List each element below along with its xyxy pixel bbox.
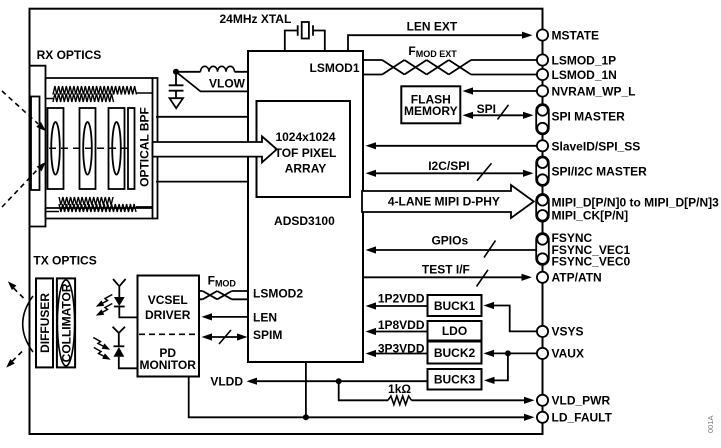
block LDO bbox=[428, 321, 482, 341]
RX optics lens mount bracket bbox=[30, 66, 46, 227]
crystal X1 24MHz leads bbox=[285, 31, 325, 52]
inductor VLOW bbox=[178, 71, 248, 73]
svg-text:TOF PIXEL: TOF PIXEL bbox=[275, 146, 337, 160]
pin VLD_PWR bbox=[537, 395, 548, 406]
hollow arrow 4-LANE MIPI D-PHY bbox=[362, 185, 534, 218]
twisted pair FMOD EXT crossings bbox=[382, 60, 471, 75]
optical axis dashed line bbox=[49, 147, 128, 149]
module boundary border bbox=[30, 9, 543, 434]
RX optics thread zigzag bottom row A bbox=[59, 197, 113, 205]
slash TEST I/F bus mark bbox=[477, 270, 489, 287]
wire I2C/SPI bbox=[366, 170, 534, 177]
pin VSYS bbox=[537, 326, 548, 337]
svg-text:OPTICAL BPF: OPTICAL BPF bbox=[137, 107, 151, 187]
svg-text:SPIM: SPIM bbox=[253, 328, 282, 342]
wire SPIM bbox=[202, 333, 248, 340]
lens element 2 bbox=[80, 108, 96, 189]
wire 3P3VDD bbox=[366, 350, 428, 357]
pin group SPI/I2C MASTER stadium bbox=[536, 157, 549, 186]
svg-text:RX OPTICS: RX OPTICS bbox=[37, 48, 102, 62]
svg-text:MIPI_CK[P/N]: MIPI_CK[P/N] bbox=[552, 209, 629, 223]
svg-text:SPI: SPI bbox=[477, 102, 496, 116]
pin VAUX bbox=[537, 348, 548, 359]
light arrow into D2 a bbox=[93, 338, 110, 350]
RX optics thread zigzag bottom row B bbox=[59, 204, 136, 212]
svg-text:FMOD: FMOD bbox=[208, 274, 237, 289]
svg-text:MEMORY: MEMORY bbox=[404, 104, 458, 118]
node VLDD junction dot bbox=[336, 378, 342, 384]
svg-text:LEN: LEN bbox=[253, 310, 277, 324]
svg-text:ADSD3100: ADSD3100 bbox=[274, 214, 335, 228]
block BUCK1 bbox=[428, 295, 482, 316]
svg-text:3P3VDD: 3P3VDD bbox=[378, 342, 425, 356]
wire PD monitor to LD_FAULT bbox=[189, 377, 535, 421]
pin SPI MASTER circle 1 bbox=[537, 105, 548, 116]
light arrow from D1 a bbox=[96, 295, 113, 307]
crystal X1 plates bbox=[298, 25, 313, 36]
svg-text:MONITOR: MONITOR bbox=[139, 358, 196, 372]
wire SPI bus bbox=[463, 112, 534, 119]
incoming light dashed arrow 2 bbox=[2, 162, 46, 207]
wire LEN EXT to MSTATE bbox=[348, 32, 533, 51]
wire NVRAM_WP_L bbox=[463, 87, 537, 94]
svg-text:1P2VDD: 1P2VDD bbox=[378, 291, 425, 305]
collimator lens ellipse bbox=[57, 280, 74, 366]
svg-text:BUCK2: BUCK2 bbox=[434, 346, 476, 360]
twisted pair FMOD rails bbox=[200, 291, 249, 299]
optical path hollow arrow bbox=[153, 136, 277, 162]
block COLLIMATOR bbox=[57, 278, 75, 367]
pin SPI MASTER circle 2 bbox=[537, 123, 548, 134]
svg-text:24MHz XTAL: 24MHz XTAL bbox=[220, 12, 292, 26]
svg-text:VLOW: VLOW bbox=[209, 77, 246, 91]
svg-text:001A: 001A bbox=[706, 415, 715, 433]
svg-text:ARRAY: ARRAY bbox=[285, 162, 327, 176]
emitted light dashed arrow down bbox=[6, 352, 22, 368]
wire ADSD3100 bottom to LD_FAULT line bbox=[305, 362, 307, 417]
lens element 3 bbox=[109, 108, 125, 189]
RX optics thread zigzag top row A bbox=[53, 86, 137, 95]
svg-text:MIPI_D[P/N]0 to MIPI_D[P/N]3: MIPI_D[P/N]0 to MIPI_D[P/N]3 bbox=[552, 196, 720, 210]
node LD_FAULT junction dot bbox=[303, 414, 309, 420]
block TOF pixel array bbox=[257, 101, 351, 197]
optical bandpass filter element bbox=[128, 108, 135, 189]
pin SPI/I2C MASTER circle 1 bbox=[537, 157, 548, 168]
svg-text:BUCK3: BUCK3 bbox=[434, 373, 476, 387]
svg-text:VAUX: VAUX bbox=[552, 347, 584, 361]
pin ATP_ATN bbox=[537, 272, 548, 283]
light arrow into D2 b bbox=[94, 348, 111, 360]
svg-text:VLDD: VLDD bbox=[210, 374, 243, 388]
svg-text:ATP/ATN: ATP/ATN bbox=[552, 271, 602, 285]
wire 1P8VDD bbox=[366, 328, 428, 335]
svg-text:LEN EXT: LEN EXT bbox=[407, 20, 458, 34]
svg-text:4-LANE MIPI D-PHY: 4-LANE MIPI D-PHY bbox=[388, 195, 500, 209]
wire VSYS to BUCK1 bbox=[484, 302, 537, 332]
svg-text:VCSEL: VCSEL bbox=[148, 293, 188, 307]
slash I2C/SPI bus mark bbox=[477, 163, 492, 181]
svg-text:1kΩ: 1kΩ bbox=[388, 382, 411, 396]
crystal X1 body bbox=[302, 22, 309, 39]
svg-text:NVRAM_WP_L: NVRAM_WP_L bbox=[552, 84, 636, 98]
svg-text:FMOD EXT: FMOD EXT bbox=[408, 44, 457, 59]
lens element 1 bbox=[48, 108, 64, 189]
photodiode D2 triangle bbox=[114, 347, 125, 357]
light duct top wire bbox=[156, 116, 249, 118]
wire LEN bbox=[202, 313, 249, 320]
pin MSTATE bbox=[537, 29, 548, 40]
wire GPIOs bbox=[366, 246, 537, 253]
pin LSMOD_1N bbox=[537, 69, 548, 80]
capacitor VLOW lead bbox=[175, 72, 177, 86]
laser diode D1 cathode bar bbox=[114, 306, 125, 308]
resistor R1 1kOhm wire bbox=[339, 381, 535, 404]
wire VLDD from BUCK3 bbox=[247, 378, 428, 385]
block DIFFUSER bbox=[36, 278, 53, 367]
pin MIPI circle 2 bbox=[537, 210, 548, 221]
pin group MIPI stadium bbox=[536, 194, 549, 222]
svg-text:SlaveID/SPI_SS: SlaveID/SPI_SS bbox=[552, 139, 641, 153]
node VAUX junction dot bbox=[505, 350, 511, 356]
svg-text:LSMOD1: LSMOD1 bbox=[309, 61, 359, 75]
emitted beam arc bbox=[23, 296, 33, 352]
wire VAUX to BUCK3 bbox=[484, 353, 508, 384]
pin LSMOD_1P bbox=[537, 54, 548, 65]
slash SPIM bus mark bbox=[219, 330, 231, 344]
svg-text:BUCK1: BUCK1 bbox=[434, 299, 476, 313]
pin FSYNC circle 2 bbox=[537, 253, 548, 264]
svg-text:LSMOD_1N: LSMOD_1N bbox=[552, 68, 617, 82]
svg-text:I2C/SPI: I2C/SPI bbox=[428, 159, 469, 173]
block FLASH MEMORY bbox=[401, 86, 460, 123]
svg-text:TEST I/F: TEST I/F bbox=[422, 263, 470, 277]
svg-text:FSYNC_VEC0: FSYNC_VEC0 bbox=[552, 254, 631, 268]
wire SlaveID/SPI_SS bbox=[366, 142, 537, 149]
svg-text:DIFFUSER: DIFFUSER bbox=[38, 293, 52, 353]
RX optics thread bottom step bbox=[46, 207, 153, 212]
switch VLOW diagonal bbox=[176, 72, 248, 92]
ground symbol bbox=[170, 98, 184, 108]
block BUCK2 bbox=[428, 342, 482, 364]
svg-text:LD_FAULT: LD_FAULT bbox=[552, 411, 613, 425]
incoming light dashed arrow 1 bbox=[2, 91, 46, 131]
svg-text:MSTATE: MSTATE bbox=[552, 28, 600, 42]
pin LD_FAULT bbox=[537, 412, 548, 423]
laser diode D1 anode fork bbox=[113, 279, 126, 297]
wire D1 to VCSEL driver bbox=[119, 307, 138, 318]
twisted pair FMOD crossings bbox=[203, 291, 232, 299]
pin group FSYNC stadium bbox=[536, 233, 549, 265]
pin MIPI circle 1 bbox=[537, 195, 548, 206]
RX optics window element bbox=[31, 97, 40, 191]
wire TEST I/F bbox=[363, 274, 532, 281]
svg-text:SPI MASTER: SPI MASTER bbox=[552, 110, 626, 124]
block VCSEL DRIVER / PD MONITOR bbox=[138, 276, 200, 377]
emitted light dashed arrow up bbox=[8, 281, 24, 298]
wire D2 to PD monitor bbox=[119, 357, 138, 369]
svg-text:1P8VDD: 1P8VDD bbox=[378, 318, 425, 332]
RX optics barrel housing bbox=[46, 78, 158, 219]
svg-text:VLD_PWR: VLD_PWR bbox=[552, 394, 611, 408]
pin SPI/I2C MASTER circle 2 bbox=[537, 174, 548, 185]
svg-text:LDO: LDO bbox=[442, 324, 467, 338]
svg-text:TX OPTICS: TX OPTICS bbox=[33, 254, 96, 268]
RX optics thread top step bbox=[46, 93, 153, 99]
pin NVRAM_WP_L bbox=[537, 85, 548, 96]
svg-text:1024x1024: 1024x1024 bbox=[275, 130, 335, 144]
twisted pair FMOD EXT rails bbox=[363, 60, 537, 75]
photodiode D2 cathode bar bbox=[114, 345, 125, 347]
block ADSD3100 bbox=[248, 51, 363, 362]
svg-text:SPI/I2C MASTER: SPI/I2C MASTER bbox=[552, 164, 648, 178]
laser diode D1 triangle bbox=[114, 297, 125, 306]
wire VAUX to BUCK2 bbox=[484, 350, 537, 357]
svg-text:GPIOs: GPIOs bbox=[431, 234, 468, 248]
capacitor VLOW plates bbox=[169, 85, 184, 90]
RX optics barrel inner wall bbox=[46, 78, 153, 219]
svg-text:LSMOD_1P: LSMOD_1P bbox=[552, 53, 617, 67]
svg-text:COLLIMATOR: COLLIMATOR bbox=[59, 283, 73, 362]
pin group SPI MASTER stadium bbox=[536, 104, 549, 134]
block BUCK3 bbox=[428, 369, 482, 390]
svg-text:VSYS: VSYS bbox=[552, 325, 584, 339]
svg-text:LSMOD2: LSMOD2 bbox=[253, 287, 303, 301]
pin FSYNC circle 1 bbox=[537, 234, 548, 245]
slash SPI bus width mark bbox=[498, 105, 509, 120]
ground lead bbox=[175, 91, 177, 99]
node VLOW junction dot bbox=[173, 69, 179, 75]
light duct bottom wire bbox=[156, 181, 249, 183]
svg-text:DRIVER: DRIVER bbox=[145, 308, 191, 322]
RX optics thread zigzag top row B bbox=[53, 94, 114, 103]
slash GPIOs bus mark bbox=[484, 241, 496, 258]
photodiode D2 anode fork bbox=[113, 327, 125, 347]
light arrow from D1 b bbox=[96, 304, 113, 316]
divider VCSEL/PD dashed bbox=[139, 333, 198, 335]
wire 1P2VDD bbox=[366, 302, 428, 309]
pin SlaveID_SPI_SS bbox=[537, 140, 548, 151]
